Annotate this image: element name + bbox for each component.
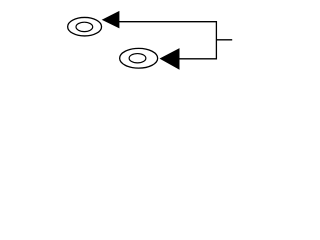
- node A inner ellipse: [76, 22, 93, 31]
- arrowhead into node A: [103, 12, 119, 28]
- node B inner ellipse: [129, 54, 146, 63]
- node B outer ellipse (bottom bulb): [120, 48, 158, 68]
- wire: top horizontal + right vertical + bottom horizontal: [119, 22, 216, 59]
- node A outer ellipse (top bulb): [68, 17, 102, 36]
- arrowhead into node B: [161, 49, 179, 69]
- wire stub (right tee): [216, 39, 232, 41]
